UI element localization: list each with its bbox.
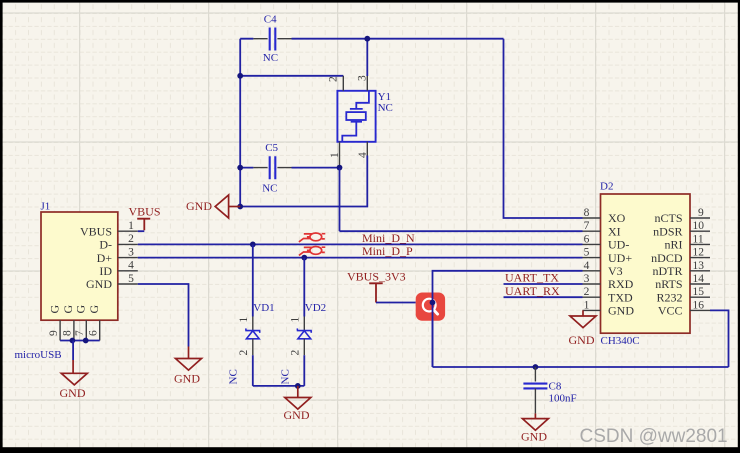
svg-text:9: 9 — [48, 330, 60, 336]
VD1 pin 2 stub — [252, 339, 254, 355]
svg-text:C4: C4 — [264, 14, 277, 26]
svg-text:5: 5 — [128, 273, 134, 285]
wire: Y1 pin2 horizontal — [240, 75, 343, 77]
capacitor C4 pin stubs — [253, 38, 291, 40]
svg-text:8: 8 — [584, 207, 590, 219]
wire: C4 top net horizontal — [240, 38, 503, 40]
svg-text:VD2: VD2 — [305, 302, 326, 314]
wire: VBUS_3V3 branch — [376, 302, 416, 304]
wire: Y1 pin3 up to top net — [366, 39, 368, 76]
ground symbol (crystal area, left-pointing) — [229, 206, 241, 208]
capacitor C8 pin stub top — [534, 367, 536, 382]
svg-text:UD+: UD+ — [608, 251, 632, 265]
svg-text:NC: NC — [228, 369, 240, 384]
wire: Y1 pin4 down and left to GND node — [240, 156, 367, 207]
ground symbol below C8 — [534, 413, 536, 418]
VD2 pin 1 stub — [303, 317, 305, 331]
svg-text:10: 10 — [693, 220, 705, 232]
svg-text:D-: D- — [99, 238, 112, 252]
D2 pin 16 stub — [690, 309, 710, 311]
svg-text:UART_TX: UART_TX — [505, 271, 559, 285]
capacitor C8 pin stub bottom — [534, 388, 536, 413]
svg-text:1: 1 — [329, 152, 341, 158]
svg-text:VBUS_3V3: VBUS_3V3 — [347, 270, 406, 284]
D2 pin 14 stub — [690, 283, 710, 285]
svg-text:nRTS: nRTS — [655, 277, 682, 291]
svg-text:NC: NC — [378, 102, 393, 114]
D2 pin 11 stub — [690, 243, 710, 245]
D2 pin 4 stub — [583, 270, 601, 272]
junction at left wire / C5 — [237, 165, 243, 171]
power port VBUS_3V3 — [369, 283, 383, 302]
svg-text:16: 16 — [693, 299, 705, 311]
Y1 pin 4 stub — [366, 142, 368, 156]
svg-text:Mini_D_N: Mini_D_N — [362, 231, 415, 245]
capacitor C8 symbol — [523, 384, 547, 389]
cursor highlight icon (red square with magnifier) — [416, 293, 445, 321]
wire: left vertical from C4 to GND row — [239, 39, 241, 207]
svg-text:ID: ID — [99, 264, 112, 278]
ground symbol below J1 GND wire — [188, 347, 190, 359]
svg-text:3: 3 — [357, 75, 369, 81]
svg-text:GND: GND — [174, 371, 200, 385]
D2 pin 3 stub — [583, 283, 601, 285]
svg-text:1: 1 — [584, 299, 590, 311]
D2 pin 13 stub — [690, 270, 710, 272]
svg-text:11: 11 — [693, 233, 704, 245]
VD2 pin 2 stub — [303, 339, 305, 355]
Y1 pin 3 stub — [366, 76, 368, 91]
wire: VD1 bottom — [252, 355, 254, 386]
svg-text:G: G — [74, 305, 88, 314]
svg-text:1: 1 — [128, 220, 134, 232]
J1 pin 4 stub — [118, 270, 138, 272]
J1 pin 1 stub — [118, 230, 138, 232]
svg-text:NC: NC — [263, 52, 278, 64]
D2 pin 12 stub — [690, 257, 710, 259]
svg-text:C8: C8 — [549, 380, 562, 392]
svg-text:GND: GND — [186, 199, 212, 213]
wire: Mini_D_N net (D- to UD-) — [138, 243, 583, 245]
capacitor C5 symbol — [270, 156, 276, 179]
svg-text:R232: R232 — [656, 290, 682, 304]
wire: VD2 top — [303, 258, 305, 317]
VD1 pin 1 stub — [252, 317, 254, 331]
svg-text:D2: D2 — [600, 181, 613, 193]
svg-text:nRI: nRI — [665, 238, 683, 252]
svg-text:GND: GND — [608, 304, 634, 318]
ground symbol below D2 pin GND — [582, 310, 584, 316]
svg-text:Mini_D_P: Mini_D_P — [362, 244, 413, 258]
wire: top net down right side to XO — [504, 39, 583, 218]
wire: VD2 bottom — [303, 355, 305, 386]
wire: UART_RX to TXD — [504, 296, 583, 298]
wire: vertical over icon — [432, 293, 434, 368]
svg-text:12: 12 — [693, 247, 705, 259]
svg-text:CH340C: CH340C — [601, 335, 640, 347]
svg-text:2: 2 — [128, 233, 134, 245]
wire: UART_TX to RXD — [504, 283, 583, 285]
wire: VCC down — [710, 310, 729, 367]
svg-text:15: 15 — [693, 286, 705, 298]
D2 pin 10 stub — [690, 230, 710, 232]
svg-text:13: 13 — [693, 260, 705, 272]
svg-text:2: 2 — [289, 350, 301, 356]
svg-text:VBUS: VBUS — [80, 224, 112, 238]
svg-text:C5: C5 — [265, 142, 278, 154]
svg-text:7: 7 — [74, 330, 86, 336]
junction D- / VD1 — [250, 242, 256, 248]
differential pair marker on Mini_D_N — [299, 233, 325, 242]
svg-text:9: 9 — [698, 207, 704, 219]
connector J1 body — [41, 212, 118, 320]
crystal Y1 body — [337, 91, 375, 142]
svg-text:nDSR: nDSR — [653, 224, 682, 238]
wire: shield to ground — [72, 341, 74, 361]
junction C5 / Y1 pin1 / down wire — [337, 165, 343, 171]
svg-text:TXD: TXD — [608, 290, 633, 304]
junction VBUS_3V3 / V3 net — [430, 300, 436, 306]
junction shield 7 — [83, 338, 89, 344]
D2 pin 15 stub — [690, 296, 710, 298]
wire: J1 GND pin to ground — [138, 284, 189, 347]
Y1 pin 2 stub — [342, 76, 344, 91]
svg-text:J1: J1 — [41, 200, 51, 212]
D2 pin 5 stub — [583, 257, 601, 259]
power port VBUS — [137, 219, 150, 231]
svg-text:14: 14 — [693, 273, 705, 285]
svg-text:UART_RX: UART_RX — [505, 284, 560, 298]
D2 pin 9 stub — [690, 217, 710, 219]
capacitor C4 symbol — [270, 28, 276, 51]
J1 pin 5 stub — [118, 283, 138, 285]
D2 pin 2 stub — [583, 296, 601, 298]
svg-text:100nF: 100nF — [549, 393, 577, 405]
svg-text:5: 5 — [584, 247, 590, 259]
junction VD bottom / ground — [295, 383, 301, 389]
svg-text:NC: NC — [280, 369, 292, 384]
svg-text:6: 6 — [584, 233, 590, 245]
svg-text:1: 1 — [289, 317, 301, 323]
D2 pin 8 stub — [583, 217, 601, 219]
svg-text:GND: GND — [521, 429, 547, 443]
IC D2 body — [601, 194, 691, 333]
svg-text:2: 2 — [328, 76, 340, 82]
J1 pin 3 stub — [118, 257, 138, 259]
svg-text:V3: V3 — [608, 264, 623, 278]
svg-text:VD1: VD1 — [253, 302, 274, 314]
svg-text:GND: GND — [86, 277, 112, 291]
junction bottom net / C8 — [533, 364, 539, 370]
J1 pin 2 stub — [118, 243, 138, 245]
svg-text:2: 2 — [238, 350, 250, 356]
svg-text:CSDN @ww2801: CSDN @ww2801 — [580, 426, 728, 447]
svg-text:6: 6 — [88, 330, 100, 336]
svg-text:NC: NC — [262, 183, 277, 195]
svg-text:8: 8 — [62, 330, 74, 336]
wire: Mini_D_P net (D+ to UD+) — [138, 257, 583, 259]
svg-text:GND: GND — [284, 408, 310, 422]
svg-text:7: 7 — [584, 220, 590, 232]
svg-text:GND: GND — [60, 386, 86, 400]
junction shield 8 — [70, 338, 76, 344]
svg-text:G: G — [47, 305, 61, 314]
zener diode VD2 symbol — [297, 328, 311, 338]
wire: XI row — [340, 230, 583, 232]
svg-text:nDCD: nDCD — [651, 251, 683, 265]
svg-text:UD-: UD- — [608, 238, 629, 252]
wire: C5 row — [240, 167, 339, 169]
svg-text:XO: XO — [608, 211, 626, 225]
Y1 pin 1 stub — [339, 142, 341, 168]
capacitor C5 pin stubs — [253, 167, 291, 169]
svg-text:VBUS: VBUS — [129, 205, 161, 219]
screenshot border — [0, 0, 740, 3]
svg-text:RXD: RXD — [608, 277, 634, 291]
wire: C5 node down to XI row — [339, 168, 341, 232]
svg-text:4: 4 — [584, 260, 590, 272]
svg-text:2: 2 — [584, 286, 590, 298]
svg-text:GND: GND — [569, 333, 595, 347]
svg-text:4: 4 — [128, 260, 134, 272]
svg-text:XI: XI — [608, 224, 621, 238]
junction GND node — [237, 204, 243, 210]
wire: bottom net — [433, 366, 729, 368]
svg-text:3: 3 — [128, 246, 134, 258]
svg-text:nCTS: nCTS — [654, 211, 682, 225]
wire: VD bottom bus — [253, 385, 304, 387]
D2 pin 1 stub — [583, 309, 601, 311]
svg-text:3: 3 — [584, 273, 590, 285]
svg-text:microUSB: microUSB — [15, 349, 62, 361]
ground symbol below J1 shield — [72, 360, 74, 373]
J1 shield pin stubs 9 8 7 6 — [60, 320, 100, 340]
wire: shield bracket — [60, 340, 100, 342]
D2 pin 6 stub — [583, 243, 601, 245]
svg-text:nDTR: nDTR — [653, 264, 683, 278]
wire: V3 row and down — [433, 271, 583, 367]
junction at left wire / pin2 wire — [237, 73, 243, 79]
svg-text:1: 1 — [238, 317, 250, 323]
D2 pin 7 stub — [583, 230, 601, 232]
svg-text:D+: D+ — [97, 251, 113, 265]
wire: VD1 top — [252, 244, 254, 316]
crystal Y1 internal symbol — [342, 91, 369, 142]
junction D+ / VD2 — [301, 255, 307, 261]
svg-text:G: G — [87, 305, 101, 314]
junction top net / pin3 — [364, 36, 370, 42]
svg-text:VCC: VCC — [658, 304, 683, 318]
zener diode VD1 symbol — [246, 328, 260, 338]
ground symbol below VD1/VD2 — [297, 386, 299, 398]
differential pair marker on Mini_D_P — [299, 247, 325, 256]
